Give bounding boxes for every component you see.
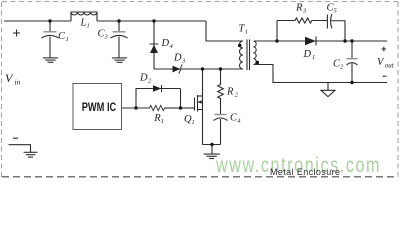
svg-text:in: in: [15, 78, 21, 87]
svg-text:1: 1: [192, 119, 195, 126]
svg-text:Metal Enclosure: Metal Enclosure: [270, 167, 340, 177]
svg-text:1: 1: [312, 54, 315, 61]
svg-text:V: V: [377, 57, 385, 68]
svg-text:out: out: [385, 61, 395, 69]
svg-text:1: 1: [245, 29, 248, 36]
svg-text:1: 1: [66, 36, 69, 43]
svg-text:D: D: [303, 49, 312, 60]
svg-text:1: 1: [161, 118, 164, 125]
svg-text:5: 5: [334, 8, 338, 15]
svg-text:R: R: [295, 3, 303, 14]
svg-text:D: D: [161, 38, 170, 49]
svg-text:2: 2: [235, 92, 239, 99]
svg-text:D: D: [173, 53, 182, 64]
svg-text:4: 4: [237, 118, 241, 125]
svg-text:V: V: [5, 71, 14, 85]
svg-text:1: 1: [87, 23, 90, 30]
svg-text:2: 2: [148, 78, 152, 85]
svg-text:2: 2: [340, 64, 344, 71]
svg-text:R: R: [226, 87, 234, 98]
svg-text:3: 3: [104, 34, 109, 41]
svg-text:D: D: [139, 73, 148, 84]
svg-text:L: L: [80, 18, 87, 29]
svg-text:4: 4: [170, 43, 174, 50]
svg-text:3: 3: [302, 8, 307, 15]
svg-text:3: 3: [181, 58, 186, 65]
svg-text:PWM IC: PWM IC: [82, 100, 117, 114]
